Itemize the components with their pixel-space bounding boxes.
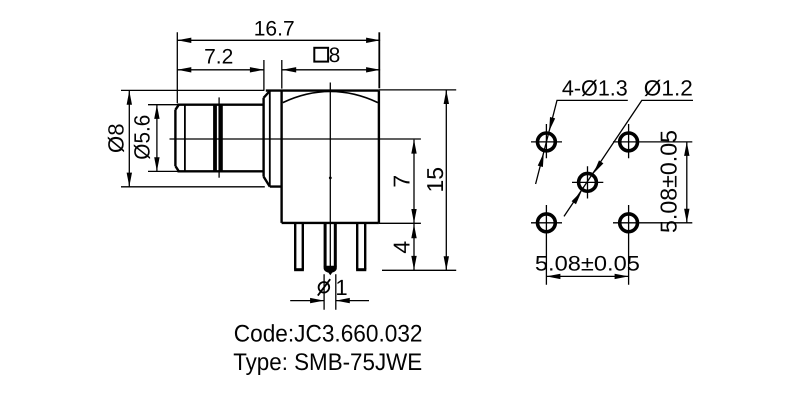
svg-text:16.7: 16.7 <box>254 17 295 40</box>
footprint hole top-left <box>538 133 556 151</box>
dim 5.08 bottom <box>546 275 628 277</box>
svg-text:4: 4 <box>388 241 414 254</box>
dim 5.08 right <box>686 142 688 223</box>
body top arc <box>283 91 378 102</box>
dim 7 and 4 <box>379 140 456 271</box>
dim 7.2 <box>177 60 264 90</box>
footprint hole bottom-left <box>538 214 556 232</box>
svg-text:5.08±0.05: 5.08±0.05 <box>656 130 682 233</box>
horizontal centerline <box>170 138 421 140</box>
square symbol of dim square-8 <box>314 48 328 62</box>
barrel (connector interface cylinder) <box>175 105 263 172</box>
leader 4-dia1.3 <box>536 100 628 184</box>
footprint hole bottom-right <box>620 214 638 232</box>
center pin <box>325 223 335 267</box>
svg-text:4-Ø1.3: 4-Ø1.3 <box>562 75 628 100</box>
center dot <box>329 177 332 180</box>
vertical centerline <box>329 83 331 274</box>
groove centerline <box>218 97 220 177</box>
svg-text:Ø1.2: Ø1.2 <box>644 75 693 100</box>
dim 15 <box>379 90 456 270</box>
label dia1 <box>318 279 330 295</box>
dim dia8 <box>121 90 265 186</box>
svg-text:Ø8: Ø8 <box>103 123 128 153</box>
svg-text:7.2: 7.2 <box>204 46 233 69</box>
flange <box>264 91 282 187</box>
left pin <box>295 223 303 270</box>
dim square-8 <box>282 60 380 89</box>
svg-text:8: 8 <box>329 44 341 67</box>
right pin <box>357 223 365 270</box>
barrel chamfer ring line <box>184 105 186 171</box>
dim dia5.6 <box>148 105 178 172</box>
dim 16.7 <box>177 32 380 103</box>
flange ridge line <box>269 91 271 186</box>
leader dia1.2 <box>564 100 693 216</box>
svg-text:15: 15 <box>422 167 448 193</box>
svg-text:1: 1 <box>335 275 347 300</box>
right extension line (16.7 / square-8) <box>378 32 380 88</box>
svg-text:Ø5.6: Ø5.6 <box>129 115 154 160</box>
body block <box>266 91 379 223</box>
svg-text:Code:JC3.660.032: Code:JC3.660.032 <box>234 321 423 348</box>
footprint hole top-right <box>620 133 638 151</box>
footprint hole center <box>579 173 597 191</box>
svg-text:Type: SMB-75JWE: Type: SMB-75JWE <box>233 349 422 376</box>
svg-text:5.08±0.05: 5.08±0.05 <box>535 253 640 276</box>
dim dia1 <box>290 274 369 310</box>
svg-text:7: 7 <box>388 175 414 188</box>
barrel snap groove <box>215 104 221 173</box>
